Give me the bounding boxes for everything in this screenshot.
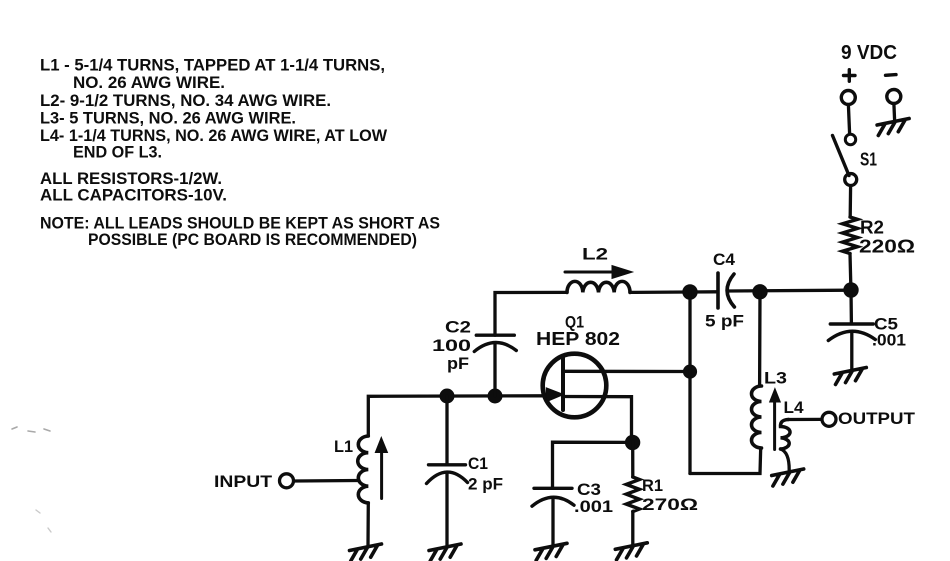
tuning arrow (L1) xyxy=(380,452,383,499)
wire R1 to ground xyxy=(631,512,634,545)
wire C3 to ground xyxy=(551,499,554,546)
wire L1 bottom xyxy=(366,503,370,546)
svg-text:NO. 26 AWG WIRE.: NO. 26 AWG WIRE. xyxy=(73,73,225,92)
inductor L4 xyxy=(780,420,790,450)
inductor L2 xyxy=(567,281,630,292)
resistor R1 xyxy=(626,477,639,512)
node C4/L3 junction xyxy=(753,285,767,299)
wire C2 top to L2 xyxy=(495,292,567,335)
wire C1 to ground xyxy=(445,473,448,546)
capacitor C2 xyxy=(476,334,514,337)
ground (L4) xyxy=(772,469,804,486)
svg-text:L2- 9-1/2 TURNS, NO. 34 AWG WI: L2- 9-1/2 TURNS, NO. 34 AWG WIRE. xyxy=(40,91,331,110)
scan speckle xyxy=(12,427,50,432)
wire L3 top lead xyxy=(758,292,762,386)
svg-text:HEP 802: HEP 802 xyxy=(536,329,620,349)
svg-text:R1: R1 xyxy=(642,476,663,495)
ground (battery -) xyxy=(877,119,909,136)
svg-text:9 VDC: 9 VDC xyxy=(841,42,897,64)
inductor L3 xyxy=(752,386,762,448)
wire bottom loop xyxy=(690,448,761,474)
wire C4 to supply node xyxy=(728,289,851,293)
node C1/base junction xyxy=(440,389,454,403)
svg-text:5 pF: 5 pF xyxy=(705,312,744,331)
transistor Q1 xyxy=(543,354,607,418)
node C2/base junction xyxy=(488,389,502,403)
wire junction to C3 xyxy=(553,442,633,487)
svg-text:L1: L1 xyxy=(334,437,353,456)
wire L4 to ground xyxy=(781,449,790,470)
wire R2 to supply node xyxy=(848,254,852,290)
resistor R2 xyxy=(843,217,858,254)
wire node to C1 xyxy=(445,396,448,464)
wire C5 to ground xyxy=(850,332,853,369)
node drain junction xyxy=(683,365,696,378)
svg-text:INPUT: INPUT xyxy=(214,472,273,491)
wire switch to R2 xyxy=(849,186,853,217)
wire node to C5 xyxy=(849,290,853,324)
svg-text:.001: .001 xyxy=(872,331,906,350)
wire C2 bottom lead xyxy=(493,344,496,397)
svg-text:pF: pF xyxy=(447,354,469,373)
ground (L1) xyxy=(350,544,382,561)
wire drain to node xyxy=(564,370,690,374)
svg-text:C4: C4 xyxy=(713,250,736,269)
capacitor C3 xyxy=(534,487,572,490)
wire junction to R1 xyxy=(631,443,634,478)
wire + terminal to switch xyxy=(848,105,849,134)
svg-text:220Ω: 220Ω xyxy=(859,237,915,257)
battery + terminal xyxy=(844,70,856,82)
svg-text:270Ω: 270Ω xyxy=(642,495,698,514)
svg-text:R2: R2 xyxy=(860,218,884,238)
wire L4 to output xyxy=(788,418,822,421)
svg-text:L4: L4 xyxy=(784,398,805,417)
ground (R1) xyxy=(615,543,647,560)
capacitor C1 xyxy=(429,463,466,466)
svg-text:END OF L3.: END OF L3. xyxy=(73,143,162,162)
node R2/C4/C5 junction xyxy=(844,283,858,297)
capacitor C4 xyxy=(716,273,720,308)
svg-text:ALL CAPACITORS-10V.: ALL CAPACITORS-10V. xyxy=(40,186,227,205)
svg-text:L3- 5 TURNS, NO. 26 AWG WIRE.: L3- 5 TURNS, NO. 26 AWG WIRE. xyxy=(40,109,296,128)
battery - terminal xyxy=(886,73,897,77)
svg-text:C2: C2 xyxy=(445,318,471,337)
svg-text:2 pF: 2 pF xyxy=(468,475,503,494)
wire L1 top to base wire corner xyxy=(368,396,547,436)
ground (C5) xyxy=(834,368,866,385)
switch S1 xyxy=(845,134,855,144)
svg-text:L1 - 5-1/4 TURNS, TAPPED AT 1-: L1 - 5-1/4 TURNS, TAPPED AT 1-1/4 TURNS, xyxy=(40,56,385,75)
wire source xyxy=(564,397,632,439)
svg-text:C1: C1 xyxy=(468,454,488,473)
ground (C3) xyxy=(535,543,567,560)
INPUT terminal xyxy=(280,474,294,488)
capacitor C5 xyxy=(830,322,873,325)
svg-text:POSSIBLE (PC BOARD IS RECOMMEN: POSSIBLE (PC BOARD IS RECOMMENDED) xyxy=(88,230,417,249)
wire - terminal to ground xyxy=(892,104,896,120)
inductor L1 xyxy=(358,436,369,503)
svg-text:L2: L2 xyxy=(582,245,608,264)
node L2/C4/drain-branch junction xyxy=(683,285,697,299)
svg-text:.001: .001 xyxy=(574,497,613,516)
wire input to L1 tap xyxy=(294,479,358,483)
OUTPUT terminal xyxy=(822,412,836,426)
wire branch vertical xyxy=(688,292,691,474)
ground (C1) xyxy=(429,544,461,561)
arrow (L2) xyxy=(565,271,615,274)
arrow (L3) xyxy=(773,399,776,450)
wire node to C4 xyxy=(690,290,716,294)
node source/C3/R1 junction xyxy=(625,435,639,449)
svg-text:100: 100 xyxy=(432,336,471,355)
svg-text:L3: L3 xyxy=(764,369,787,388)
svg-text:OUTPUT: OUTPUT xyxy=(838,409,916,428)
svg-text:S1: S1 xyxy=(860,150,877,170)
wire L2 to node xyxy=(630,290,690,294)
